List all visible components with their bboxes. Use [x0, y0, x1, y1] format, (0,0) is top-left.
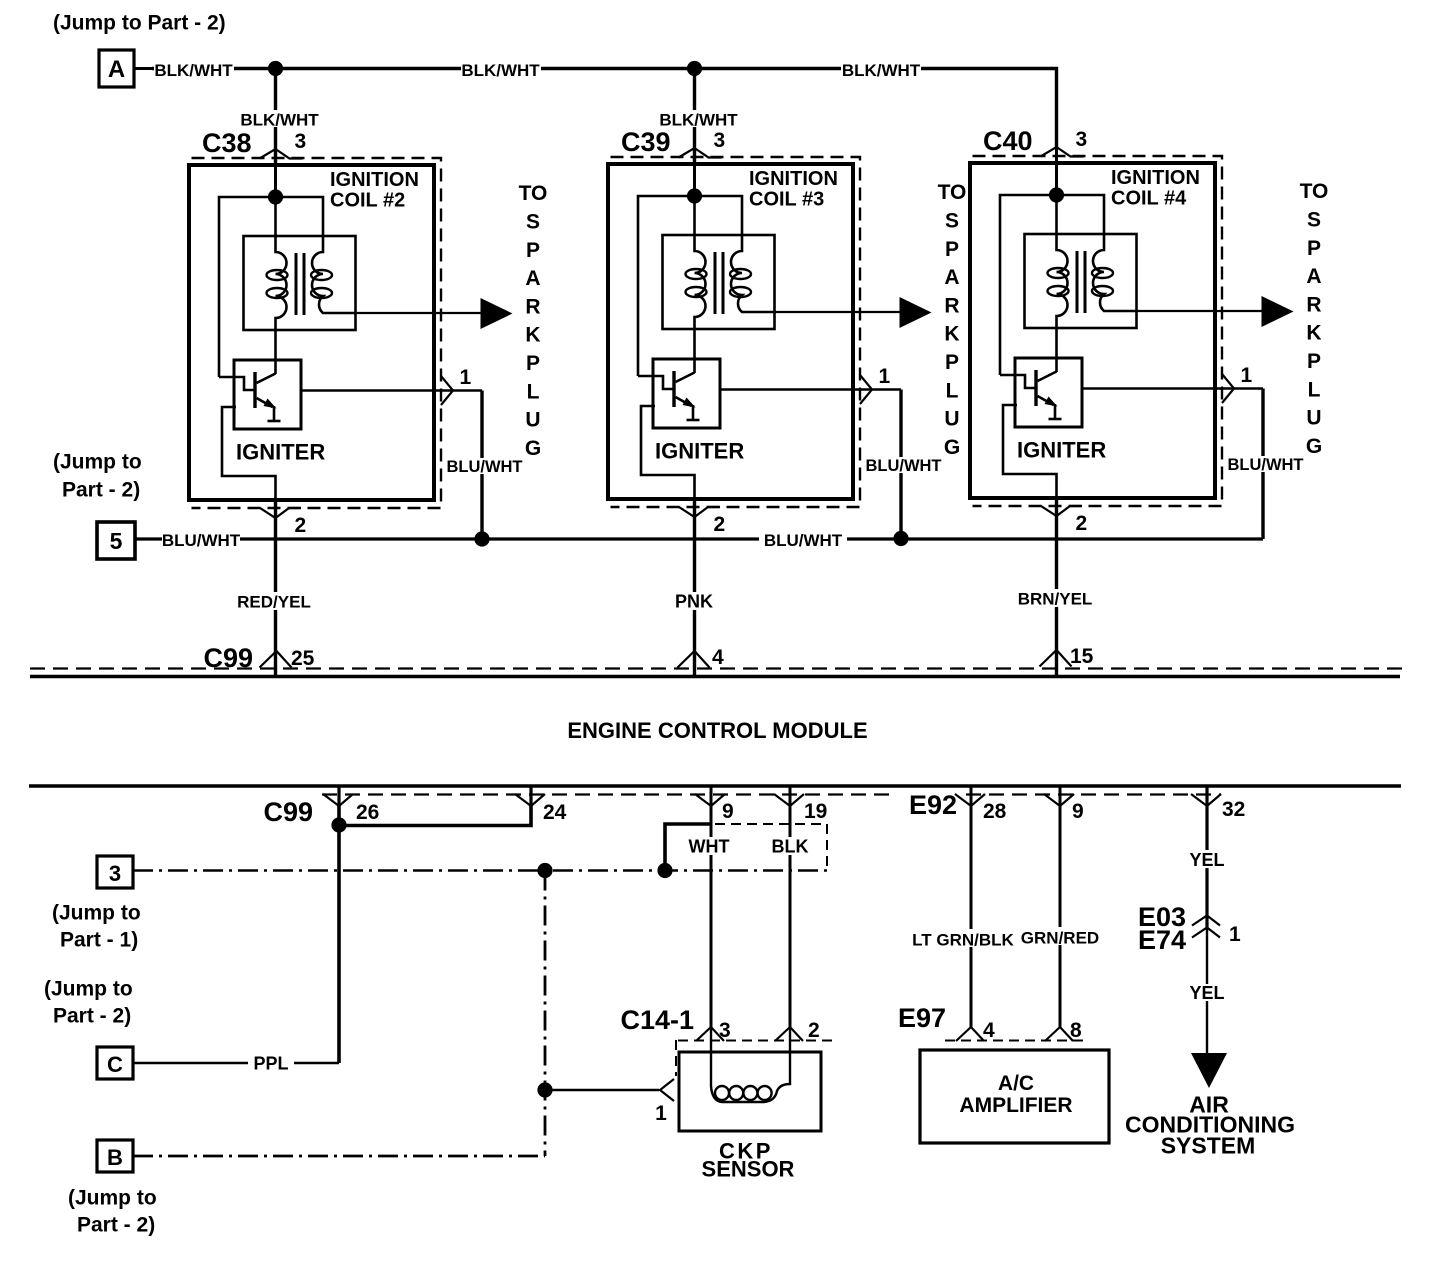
- svg-text:(Jump to: (Jump to: [68, 1187, 157, 1210]
- connector C99 pin 19 symbol: [789, 786, 792, 806]
- connector E97 pin 4 symbol: [956, 1027, 984, 1041]
- wire BLK/WHT top bus: [152, 69, 1057, 150]
- svg-text:Part - 1): Part - 1): [60, 929, 138, 952]
- wire supply node to transistor base (left branch): [219, 197, 323, 377]
- wire pin 1 output (collector side): [720, 388, 901, 391]
- svg-text:C99: C99: [203, 643, 253, 673]
- transformer (ignition coil) box: [1025, 234, 1137, 328]
- connector E92 pin 9 symbol: [1059, 786, 1062, 806]
- svg-text:2: 2: [295, 514, 307, 537]
- wire BLU/WHT bus (from box 5 across igniters): [136, 537, 1263, 540]
- svg-text:25: 25: [291, 647, 315, 670]
- wire secondary output to spark plug: [775, 311, 901, 313]
- svg-text:YEL: YEL: [1189, 850, 1224, 870]
- svg-text:1: 1: [1241, 364, 1253, 387]
- arrow to spark plug: [481, 298, 513, 329]
- arrow to spark plug: [900, 297, 932, 328]
- svg-text:(Jump to: (Jump to: [44, 978, 133, 1001]
- wire pin 2 down to C99: [693, 499, 696, 676]
- svg-text:32: 32: [1222, 798, 1245, 821]
- svg-text:LT GRN/BLK: LT GRN/BLK: [912, 931, 1014, 950]
- wire dash-dot CKP branch (vertical): [544, 871, 547, 1157]
- svg-text:SYSTEM: SYSTEM: [1161, 1133, 1256, 1159]
- wire supply node to transistor base (left branch): [638, 196, 742, 376]
- connector C99 dashed boundary (engine control module top): [30, 667, 1408, 669]
- connector box B (jump reference): [97, 1140, 133, 1172]
- svg-text:COIL #2: COIL #2: [330, 190, 405, 212]
- wire secondary output to spark plug: [1137, 310, 1263, 312]
- label BLK/WHT (bus, middle segment): [461, 60, 541, 77]
- arrow to spark plug: [1262, 296, 1294, 327]
- wire WHT (C99 pin 9 to CKP pin 3): [710, 806, 713, 1028]
- svg-text:(Jump to Part - 2): (Jump to Part - 2): [53, 12, 226, 35]
- wire PPL riser (pin 26 node down to PPL): [337, 825, 341, 1063]
- connector C14-1 pin 3 symbol: [696, 1027, 724, 1041]
- wire pin3 into unit: [274, 149, 277, 197]
- svg-text:2: 2: [714, 513, 726, 536]
- connector row dashed boundary (lower): [322, 793, 1221, 795]
- svg-text:IGNITION: IGNITION: [1111, 167, 1200, 189]
- wire link from box3 line up to WHT wire: [665, 824, 711, 871]
- svg-text:BLK/WHT: BLK/WHT: [659, 111, 738, 130]
- label BLK/WHT (C39 drop): [659, 110, 738, 127]
- label WHT: [686, 837, 732, 855]
- label RED/YEL: [234, 592, 314, 610]
- label BRN/YEL: [1014, 589, 1096, 607]
- svg-text:PNK: PNK: [675, 592, 713, 612]
- svg-text:9: 9: [722, 800, 734, 823]
- WHT/BLK label box (dashed): [715, 823, 827, 825]
- label YEL (lower): [1187, 984, 1227, 1001]
- svg-text:COIL #4: COIL #4: [1111, 188, 1187, 210]
- svg-text:E97: E97: [898, 1003, 946, 1033]
- label BLU/WHT (bus middle): [759, 531, 847, 548]
- connector pin 2 symbol: [679, 507, 720, 517]
- connector C38 pin 3 symbol: [260, 149, 303, 159]
- svg-text:C38: C38: [202, 128, 252, 158]
- connector C14-1 pin 1 symbol: [660, 1079, 674, 1101]
- arrow to air conditioning system: [1191, 1053, 1227, 1088]
- connector E92 pin 32 symbol: [1205, 786, 1208, 806]
- connector C40 pin 3 symbol: [1041, 147, 1084, 157]
- svg-text:4: 4: [983, 1019, 995, 1042]
- svg-text:C: C: [107, 1052, 123, 1077]
- transformer primary winding: [1057, 234, 1068, 328]
- wire pin 24 jog to pin 26 node: [339, 806, 531, 826]
- svg-text:BLU/WHT: BLU/WHT: [764, 531, 843, 550]
- transformer primary winding: [695, 235, 706, 329]
- junction dot: top bus to C39 drop: [687, 61, 702, 76]
- wire BLK/WHT drop to C39 pin 3: [693, 69, 696, 165]
- svg-text:1: 1: [460, 366, 472, 389]
- label connector E92: [897, 792, 959, 815]
- wire BLU/WHT down from pin 1: [480, 391, 483, 540]
- CKP sensor box: [679, 1052, 821, 1131]
- label BLU/WHT (pin 1 wire): [447, 458, 523, 474]
- svg-text:2: 2: [808, 1019, 820, 1042]
- transformer core: [295, 253, 298, 315]
- wire GRN/RED (E92 pin 9 to E97 pin 8): [1059, 806, 1062, 1028]
- svg-text:1: 1: [1229, 923, 1241, 946]
- label BLU/WHT (pin 1 wire): [866, 457, 942, 473]
- junction dot: bus to C38 pin1 wire: [474, 531, 489, 546]
- svg-text:GRN/RED: GRN/RED: [1021, 929, 1099, 948]
- transformer primary winding: [276, 236, 287, 330]
- svg-text:BLU/WHT: BLU/WHT: [446, 458, 522, 476]
- svg-text:BLK/WHT: BLK/WHT: [461, 61, 540, 80]
- wire transformer primary to igniter transistor: [693, 329, 696, 373]
- junction dot: box3 line to CKP branch: [537, 863, 552, 878]
- svg-text:24: 24: [543, 801, 567, 824]
- svg-text:28: 28: [983, 800, 1007, 823]
- wire pin 1 output (collector side): [1082, 387, 1263, 390]
- svg-text:IGNITION: IGNITION: [749, 168, 838, 190]
- svg-text:PPL: PPL: [253, 1054, 288, 1074]
- ignition coil assembly outer dashed box (COIL #2): [192, 158, 442, 508]
- connector C14-1 pin 2 symbol: [775, 1027, 803, 1041]
- svg-text:26: 26: [356, 801, 379, 824]
- wire supply node to transistor base (left branch): [1000, 195, 1104, 375]
- igniter transistor box: [1015, 358, 1082, 427]
- ignition coil assembly outer dashed box (COIL #3): [611, 157, 861, 507]
- svg-text:(Jump to: (Jump to: [53, 451, 142, 474]
- connector pin 1 symbol: [1222, 374, 1234, 403]
- svg-text:AMPLIFIER: AMPLIFIER: [959, 1094, 1072, 1117]
- connector box A (jump reference): [99, 50, 134, 87]
- svg-text:A: A: [108, 56, 125, 83]
- svg-text:E92: E92: [909, 790, 957, 820]
- svg-text:BLK/WHT: BLK/WHT: [842, 61, 921, 80]
- svg-text:3: 3: [295, 130, 307, 153]
- svg-text:Part - 2): Part - 2): [62, 479, 140, 502]
- connector box 3 (jump reference): [97, 856, 133, 888]
- label BLU/WHT (bus left): [162, 531, 240, 548]
- label PPL: [248, 1053, 294, 1071]
- svg-text:BLU/WHT: BLU/WHT: [865, 457, 941, 475]
- svg-text:WHT: WHT: [689, 837, 730, 857]
- connector C99 pin 9 symbol: [710, 786, 713, 806]
- transformer secondary winding: [1093, 234, 1137, 311]
- wire pin 1 output (collector side): [301, 389, 482, 392]
- label LT GRN/BLK: [915, 929, 1011, 947]
- wire dash-dot from box B: [133, 1155, 545, 1158]
- svg-text:Part - 2): Part - 2): [53, 1005, 131, 1028]
- label PNK: [673, 592, 715, 610]
- svg-text:IGNITER: IGNITER: [236, 440, 325, 465]
- label BLK/WHT (bus, right segment): [841, 60, 921, 77]
- wire PPL from box C: [133, 1062, 339, 1065]
- igniter transistor box: [234, 360, 301, 429]
- transformer (ignition coil) box: [244, 236, 356, 330]
- label BLK/WHT (C38 drop): [240, 110, 319, 127]
- wire from pin 26 down: [337, 806, 341, 825]
- svg-text:C99: C99: [263, 797, 313, 827]
- label GRN/RED: [1018, 927, 1102, 945]
- svg-text:1: 1: [879, 365, 891, 388]
- igniter/coil unit solid box: [970, 163, 1215, 498]
- svg-text:BLU/WHT: BLU/WHT: [162, 531, 241, 550]
- wire BLK (C99 pin 19 to CKP pin 2): [789, 806, 792, 1028]
- wire emitter loop to pin 2: [1003, 405, 1057, 498]
- junction dot inside unit (supply node): [687, 188, 702, 203]
- wire BLU/WHT down from pin 1: [1261, 389, 1264, 540]
- svg-text:ENGINE CONTROL MODULE: ENGINE CONTROL MODULE: [567, 718, 867, 743]
- junction dot inside unit (supply node): [1049, 187, 1064, 202]
- wire to CKP sensor pin 1: [545, 1089, 659, 1092]
- connector pin 2 symbol: [1041, 506, 1082, 516]
- connector box 5 (jump reference): [97, 522, 135, 559]
- wire secondary output to spark plug: [356, 312, 482, 314]
- inline connector E03/E74 symbol (double chevron): [1192, 916, 1220, 926]
- wire supply node into transformer primary: [693, 196, 696, 235]
- transformer core: [1076, 251, 1079, 313]
- svg-text:Part - 2): Part - 2): [77, 1214, 155, 1237]
- svg-text:4: 4: [712, 646, 724, 669]
- svg-text:1: 1: [655, 1102, 667, 1125]
- connector C99 pin 4 symbol: [678, 651, 710, 668]
- connector C14-1 dashed boundary: [678, 1040, 832, 1042]
- svg-text:BLU/WHT: BLU/WHT: [1227, 456, 1303, 474]
- svg-text:3: 3: [714, 129, 726, 152]
- wire dash-dot from box 3 (net to part 1): [133, 869, 827, 872]
- wire transformer primary to igniter transistor: [1055, 328, 1058, 372]
- connector pin 1 symbol: [860, 375, 872, 404]
- wire emitter loop to pin 2: [222, 407, 276, 500]
- svg-text:9: 9: [1072, 800, 1084, 823]
- svg-text:BLK: BLK: [772, 837, 809, 857]
- svg-text:BLK/WHT: BLK/WHT: [154, 61, 233, 80]
- label BLK: [768, 837, 812, 855]
- junction dot: CKP branch to sensor: [537, 1082, 552, 1097]
- wire BLU/WHT down from pin 1: [899, 390, 902, 540]
- junction dot inside unit (supply node): [268, 189, 283, 204]
- wire pin3 into unit: [1055, 147, 1058, 195]
- wire supply node into transformer primary: [1055, 195, 1058, 234]
- junction dot: top bus to C38 drop: [268, 61, 283, 76]
- wire LT GRN/BLK (E92 pin 28 to E97 pin 4): [970, 806, 973, 1028]
- svg-text:A/C: A/C: [998, 1072, 1034, 1095]
- wire BLK/WHT drop to C38 pin 3: [274, 69, 277, 166]
- igniter/coil unit solid box: [189, 165, 434, 500]
- svg-text:BRN/YEL: BRN/YEL: [1018, 590, 1093, 609]
- connector E97 pin 8 symbol: [1045, 1027, 1073, 1041]
- ignition coil assembly outer dashed box (COIL #4): [973, 156, 1223, 506]
- connector C99 pin 24 symbol: [529, 786, 532, 806]
- CKP sensor pickup coil (inductor): [711, 1028, 790, 1102]
- engine control module bottom edge: [29, 784, 1401, 788]
- svg-text:C14-1: C14-1: [620, 1005, 694, 1035]
- svg-text:3: 3: [1076, 128, 1088, 151]
- transformer secondary winding: [312, 236, 356, 313]
- connector box C (jump reference): [97, 1047, 133, 1079]
- svg-text:3: 3: [719, 1019, 731, 1042]
- junction dot pin26/pin24 node: [331, 817, 346, 832]
- A/C amplifier box: [920, 1050, 1109, 1143]
- wire pin3 into unit: [693, 148, 696, 196]
- svg-text:COIL #3: COIL #3: [749, 189, 824, 211]
- transistor Q (C39 igniter) NPN symbol: [674, 371, 700, 420]
- label BLK/WHT (bus, left segment): [154, 60, 234, 77]
- svg-text:8: 8: [1070, 1019, 1082, 1042]
- engine control module top edge: [30, 675, 1400, 679]
- wire supply node into transformer primary: [274, 197, 277, 236]
- transformer secondary winding: [731, 235, 775, 312]
- connector C99 pin 15 symbol: [1040, 650, 1072, 667]
- wire stub from box A: [134, 67, 152, 70]
- wire pin 2 down to C99: [1055, 498, 1058, 676]
- transformer core: [714, 252, 717, 314]
- label BLU/WHT (pin 1 wire): [1228, 456, 1304, 472]
- connector pin 2 symbol: [260, 508, 301, 518]
- svg-text:B: B: [107, 1145, 123, 1170]
- junction dot: bus to C39 pin1 wire: [893, 531, 908, 546]
- svg-text:2: 2: [1076, 512, 1088, 535]
- svg-text:5: 5: [110, 528, 123, 554]
- igniter transistor box: [653, 359, 720, 428]
- svg-text:IGNITER: IGNITER: [655, 439, 744, 464]
- label YEL (upper): [1187, 850, 1227, 868]
- transistor Q (C38 igniter) NPN symbol: [255, 372, 281, 421]
- svg-text:19: 19: [804, 800, 827, 823]
- transistor Q (C40 igniter) NPN symbol: [1036, 370, 1062, 419]
- wire pin 2 down to C99: [274, 500, 277, 676]
- wire YEL (to air conditioning system): [1206, 928, 1208, 1054]
- svg-text:C39: C39: [621, 127, 671, 157]
- connector E97 dashed boundary: [945, 1040, 1086, 1042]
- svg-text:15: 15: [1070, 645, 1094, 668]
- svg-text:3: 3: [109, 861, 121, 886]
- svg-text:IGNITION: IGNITION: [330, 169, 419, 191]
- svg-text:E74: E74: [1138, 925, 1186, 955]
- wire emitter loop to pin 2: [641, 406, 695, 499]
- connector C39 pin 3 symbol: [679, 148, 722, 158]
- svg-text:SENSOR: SENSOR: [702, 1157, 795, 1182]
- svg-text:RED/YEL: RED/YEL: [237, 593, 311, 612]
- svg-text:(Jump to: (Jump to: [52, 902, 141, 925]
- svg-text:YEL: YEL: [1189, 983, 1224, 1003]
- wire YEL (E92 pin 32 down): [1205, 806, 1208, 929]
- connector E92 pin 28 symbol: [970, 786, 973, 806]
- svg-text:IGNITER: IGNITER: [1017, 438, 1106, 463]
- connector C99 pin 26 symbol: [337, 786, 340, 806]
- junction dot: box3 line to WHT wire link: [657, 863, 672, 878]
- svg-text:BLK/WHT: BLK/WHT: [240, 111, 319, 130]
- connector C99 pin 25 symbol: [260, 651, 292, 668]
- igniter/coil unit solid box: [608, 164, 853, 499]
- transformer (ignition coil) box: [663, 235, 775, 329]
- wire transformer primary to igniter transistor: [274, 330, 277, 374]
- svg-text:C40: C40: [983, 126, 1033, 156]
- connector pin 1 symbol: [441, 376, 453, 405]
